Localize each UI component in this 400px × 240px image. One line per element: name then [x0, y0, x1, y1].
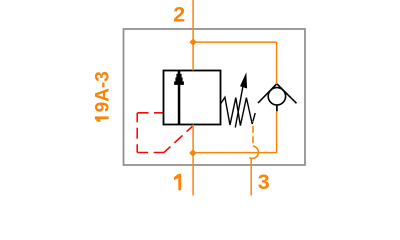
svg-text:2: 2 [173, 3, 185, 27]
svg-text:3: 3 [258, 170, 270, 194]
svg-text:9A-3: 9A-3 [93, 71, 114, 112]
